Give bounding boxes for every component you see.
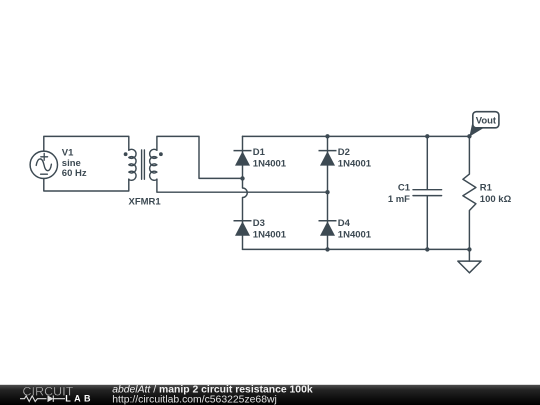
- diode D3: [234, 220, 252, 222]
- svg-text:http://circuitlab.com/c563225z: http://circuitlab.com/c563225ze68wj: [112, 395, 277, 405]
- logo diode: [48, 395, 54, 402]
- wire primary top: [44, 136, 129, 151]
- wire top rail: [243, 135, 470, 137]
- footer bar: [0, 385, 540, 405]
- svg-text:D2: D2: [338, 147, 350, 158]
- wire secondary bottom: [157, 179, 328, 192]
- voltage source V1: [30, 151, 57, 178]
- transformer XFMR1 primary coil: [129, 149, 136, 180]
- wire bottom rail: [243, 248, 470, 250]
- wire bridge right vertical: [327, 136, 329, 249]
- diode D2: [319, 150, 337, 152]
- ground: [458, 261, 481, 273]
- diode D1: [234, 150, 252, 152]
- svg-text:LAB: LAB: [65, 394, 94, 404]
- svg-text:D3: D3: [253, 218, 265, 229]
- node Vout flag: [473, 112, 499, 128]
- junction node dots: [240, 176, 244, 180]
- wire bridge left vertical with hop: [243, 136, 248, 249]
- capacitor C1: [413, 136, 442, 249]
- svg-text:XFMR1: XFMR1: [129, 196, 162, 207]
- svg-text:1N4001: 1N4001: [338, 159, 372, 170]
- transformer phase dots: [124, 152, 128, 156]
- diode D4: [319, 220, 337, 222]
- transformer core: [142, 150, 145, 179]
- svg-text:1N4001: 1N4001: [253, 230, 287, 241]
- svg-text:1N4001: 1N4001: [253, 159, 287, 170]
- svg-text:C1: C1: [398, 182, 411, 193]
- svg-text:R1: R1: [480, 182, 493, 193]
- svg-text:D1: D1: [253, 147, 266, 158]
- node Vout tail: [469, 122, 484, 136]
- svg-text:100 kΩ: 100 kΩ: [480, 194, 512, 205]
- svg-text:D4: D4: [338, 218, 351, 229]
- svg-text:Vout: Vout: [476, 115, 497, 126]
- wire secondary top: [157, 136, 243, 178]
- transformer XFMR1 secondary coil: [150, 149, 157, 180]
- svg-text:60 Hz: 60 Hz: [62, 168, 87, 179]
- svg-text:1N4001: 1N4001: [338, 230, 372, 241]
- resistor R1: [463, 136, 476, 261]
- logo symbols: [20, 396, 65, 402]
- wire primary bottom: [44, 179, 129, 192]
- svg-text:1 mF: 1 mF: [388, 194, 410, 205]
